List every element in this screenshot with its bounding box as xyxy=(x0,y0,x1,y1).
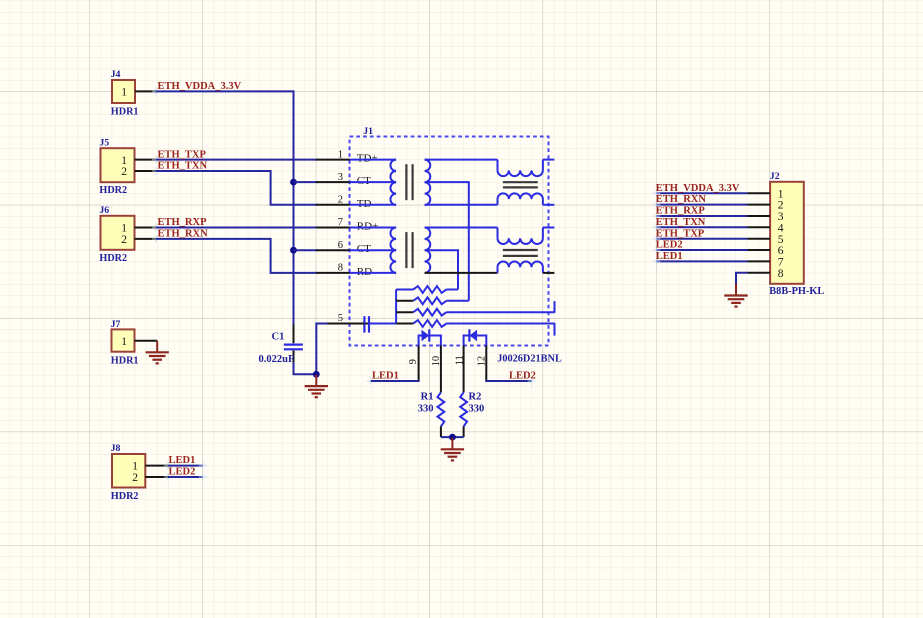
pin J1.8 xyxy=(316,272,350,274)
svg-text:ETH_VDDA_3.3V: ETH_VDDA_3.3V xyxy=(656,183,740,194)
TD transformer primary winding xyxy=(350,159,397,161)
pin J2.2 xyxy=(748,204,771,206)
wire J1 pin5 xyxy=(316,324,327,375)
wire LED2 to J2 xyxy=(656,249,747,251)
pin J2.7 xyxy=(748,260,771,262)
svg-text:ETH_RXP: ETH_RXP xyxy=(158,217,208,228)
termination resistor row3 xyxy=(396,311,413,313)
connector J4 xyxy=(112,80,135,103)
svg-text:J5: J5 xyxy=(99,137,109,148)
wire LED1 xyxy=(367,377,375,385)
RD choke bottom winding xyxy=(497,267,499,273)
wire TD secondary CT xyxy=(425,182,469,301)
pin J2.8 xyxy=(748,272,771,274)
svg-text:LED1: LED1 xyxy=(656,251,683,262)
wire LED2 at J8 xyxy=(164,473,172,481)
svg-text:LED2: LED2 xyxy=(656,240,683,251)
stub RD- out (black) xyxy=(543,272,555,274)
diode D2 (pins 11-12) xyxy=(464,336,470,346)
TD transformer secondary winding xyxy=(425,160,431,205)
transformer module J1 dashed body xyxy=(350,137,549,346)
svg-text:HDR2: HDR2 xyxy=(99,185,127,196)
svg-text:1: 1 xyxy=(338,149,343,160)
svg-text:J2: J2 xyxy=(770,171,780,182)
pin J6.2 xyxy=(135,238,157,240)
wire ETH_TXN xyxy=(152,167,160,175)
RD common-mode choke top winding xyxy=(497,228,499,239)
wire CT2 to J1 pin6 xyxy=(294,249,318,251)
svg-text:LED2: LED2 xyxy=(509,371,536,382)
svg-text:J0026D21BNL: J0026D21BNL xyxy=(497,354,562,365)
connector J6 xyxy=(101,216,135,250)
svg-text:ETH_RXP: ETH_RXP xyxy=(656,206,706,217)
diode D1 (pins 9-10) xyxy=(419,336,422,346)
wire RD secondary CT xyxy=(425,250,458,289)
pin J1.1 xyxy=(316,159,350,161)
svg-text:ETH_TXN: ETH_TXN xyxy=(656,217,706,228)
capacitor C1 xyxy=(293,325,295,344)
svg-text:330: 330 xyxy=(418,404,434,415)
pin J1.3 xyxy=(316,181,350,183)
TD transformer core xyxy=(405,164,407,200)
svg-text:R2: R2 xyxy=(469,392,482,403)
connector J2 xyxy=(770,182,804,284)
svg-text:ETH_VDDA_3.3V: ETH_VDDA_3.3V xyxy=(158,81,242,92)
svg-text:3: 3 xyxy=(338,172,343,183)
svg-text:HDR2: HDR2 xyxy=(99,253,127,264)
svg-text:3: 3 xyxy=(778,211,784,223)
TD choke bottom winding xyxy=(497,199,499,205)
stub RD+ out xyxy=(543,227,555,229)
pin J1.6 xyxy=(316,249,350,251)
wire ETH_TXP to J2 xyxy=(656,238,747,240)
pin J8.1 xyxy=(145,465,168,467)
svg-text:12: 12 xyxy=(476,356,487,367)
svg-text:1: 1 xyxy=(132,461,138,473)
wire row4 to right tick xyxy=(446,323,554,325)
wire LED2 xyxy=(485,380,531,382)
wire ETH_TXN to J2 xyxy=(656,226,747,228)
wire LED1 at J8 xyxy=(164,462,172,470)
svg-text:2: 2 xyxy=(121,234,127,246)
svg-text:ETH_TXP: ETH_TXP xyxy=(656,228,705,239)
termination resistor row2 xyxy=(396,300,413,302)
svg-text:C1: C1 xyxy=(272,332,285,343)
svg-text:10: 10 xyxy=(431,356,442,367)
RD transformer secondary winding xyxy=(425,228,431,273)
wire CT1 to J1 pin3 xyxy=(294,181,318,183)
svg-text:7: 7 xyxy=(778,257,784,269)
pin J2.1 xyxy=(748,192,771,194)
svg-text:B8B-PH-KL: B8B-PH-KL xyxy=(769,286,824,297)
wire C1 to ground xyxy=(294,362,317,374)
connector J7 xyxy=(112,329,135,351)
ground at R1/R2 xyxy=(451,438,453,450)
svg-text:8: 8 xyxy=(778,268,784,280)
pin J1.5 xyxy=(328,323,350,325)
RD transformer core xyxy=(405,232,407,268)
svg-text:4: 4 xyxy=(778,222,784,234)
internal capacitor xyxy=(363,316,365,332)
pin J1.11 xyxy=(463,346,465,393)
ground GND1 xyxy=(315,375,317,387)
svg-text:8: 8 xyxy=(338,263,343,274)
wire LED1 to J2 xyxy=(656,260,747,262)
svg-text:1: 1 xyxy=(121,155,127,167)
svg-text:2: 2 xyxy=(338,195,343,206)
pin J2.5 xyxy=(748,238,771,240)
svg-text:2: 2 xyxy=(132,472,138,484)
svg-text:J6: J6 xyxy=(99,205,109,216)
termination resistor row1 xyxy=(396,289,413,291)
svg-text:0.022uF: 0.022uF xyxy=(259,354,295,365)
pin J2.3 xyxy=(748,215,771,217)
svg-text:J4: J4 xyxy=(111,69,121,80)
RD transformer primary winding xyxy=(350,227,397,229)
wire R1-R2 join xyxy=(441,436,464,438)
svg-text:11: 11 xyxy=(454,355,465,365)
wire TD+ secondary to choke xyxy=(425,159,498,161)
svg-text:LED2: LED2 xyxy=(169,467,196,478)
pin J1.10 xyxy=(440,346,442,393)
junction dot R ground xyxy=(449,434,456,441)
stub TD+ out xyxy=(543,159,555,161)
termination resistor row4 xyxy=(364,323,370,325)
svg-text:1: 1 xyxy=(121,336,127,348)
termination bus vertical xyxy=(395,290,397,324)
svg-text:1: 1 xyxy=(121,87,127,99)
TD choke core xyxy=(503,181,538,183)
svg-text:9: 9 xyxy=(408,359,419,364)
svg-text:1: 1 xyxy=(121,223,127,235)
resistor R1 xyxy=(438,392,445,426)
pin J2.6 xyxy=(748,249,771,251)
connector J5 xyxy=(101,148,135,182)
svg-text:HDR2: HDR2 xyxy=(111,491,139,502)
wire ETH_RXN to J2 xyxy=(656,204,747,206)
wire ETH_RXP xyxy=(152,224,160,232)
svg-text:5: 5 xyxy=(778,234,784,246)
connector J8 xyxy=(112,454,145,488)
pin J2.4 xyxy=(748,226,771,228)
svg-text:5: 5 xyxy=(338,313,343,324)
svg-text:2: 2 xyxy=(778,200,784,212)
svg-text:R1: R1 xyxy=(421,392,434,403)
wire row3 to right tick xyxy=(446,311,554,313)
svg-text:ETH_RXN: ETH_RXN xyxy=(158,229,209,240)
junction dot GND node xyxy=(313,371,320,378)
svg-text:J1: J1 xyxy=(363,126,373,137)
svg-text:ETH_TXP: ETH_TXP xyxy=(158,149,207,160)
pin J8.2 xyxy=(145,476,168,478)
wire ETH_RXN xyxy=(152,235,160,243)
wire ETH_VDDA_3.3V to J2 xyxy=(656,192,747,194)
ground at J2 xyxy=(735,284,737,296)
pin J5.1 xyxy=(135,159,157,161)
stub TD- out xyxy=(543,204,555,206)
junction on CT2 xyxy=(290,247,297,254)
wire ETH_TXP xyxy=(152,156,160,164)
wire TD- secondary to choke xyxy=(425,204,498,206)
pin J1.7 xyxy=(316,227,350,229)
pin J7.1 xyxy=(135,340,158,342)
wire J2 pin8 to ground xyxy=(736,273,748,284)
svg-text:J7: J7 xyxy=(111,319,121,330)
svg-text:7: 7 xyxy=(338,217,343,228)
svg-text:1: 1 xyxy=(778,188,784,200)
svg-text:6: 6 xyxy=(338,240,343,251)
TD common-mode choke top winding xyxy=(497,160,499,171)
RD choke core xyxy=(503,249,538,251)
pin J5.2 xyxy=(135,170,157,172)
wire RD- secondary to choke (black) xyxy=(425,272,498,274)
svg-text:J8: J8 xyxy=(111,443,121,454)
pin J1.9 xyxy=(418,346,420,382)
wire ETH_RXP to J2 xyxy=(656,215,747,217)
pin J1.12 xyxy=(485,346,487,382)
svg-text:LED1: LED1 xyxy=(372,371,399,382)
junction on CT1 xyxy=(290,179,297,186)
svg-text:LED1: LED1 xyxy=(169,455,196,466)
svg-text:HDR1: HDR1 xyxy=(111,356,139,367)
wire ETH_VDDA_3.3V from J4 xyxy=(152,87,160,95)
pin J1.2 xyxy=(316,204,350,206)
svg-text:HDR1: HDR1 xyxy=(111,107,139,118)
pin J6.1 xyxy=(135,227,157,229)
svg-text:2: 2 xyxy=(121,166,127,178)
svg-text:6: 6 xyxy=(778,245,784,257)
wire RD+ secondary to choke xyxy=(425,227,498,229)
ground at J7 xyxy=(156,341,158,353)
resistor R2 xyxy=(460,392,467,426)
svg-text:ETH_TXN: ETH_TXN xyxy=(158,161,208,172)
wire ETH_VDDA vertical xyxy=(293,90,295,324)
svg-text:ETH_RXN: ETH_RXN xyxy=(656,194,707,205)
svg-text:330: 330 xyxy=(469,404,485,415)
lead pin5 to cap xyxy=(349,323,365,325)
